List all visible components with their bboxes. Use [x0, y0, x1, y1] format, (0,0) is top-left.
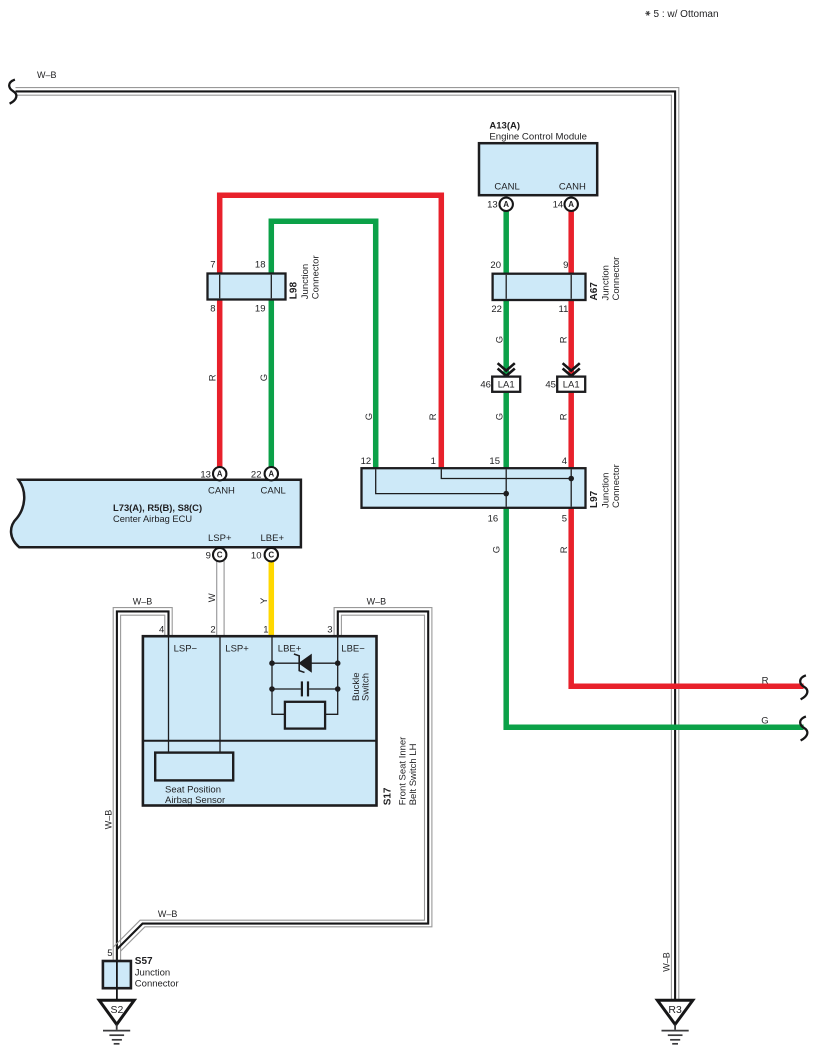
wire through L98 (red circuit, thin) — [219, 275, 221, 299]
svg-text:16: 16 — [488, 514, 499, 525]
svg-text:LBE+: LBE+ — [278, 643, 302, 654]
ground symbol bars under R3 — [662, 1024, 689, 1043]
svg-text:5: 5 — [562, 514, 567, 525]
ECM pin 13 circle A — [500, 198, 513, 211]
svg-text:A: A — [503, 200, 509, 209]
junction connector S57 box — [103, 961, 131, 988]
wire through S17 from pin 2 to seat position airbag sensor — [219, 638, 221, 753]
junction dot right of capacitor — [335, 686, 341, 692]
wire W-B left loop: S17 pin 4 up, left, down to junction connector S57 — [113, 608, 172, 962]
svg-text:5: 5 — [107, 948, 112, 959]
junction connector L97 box — [362, 468, 586, 508]
svg-text:LSP−: LSP− — [174, 643, 198, 654]
svg-text:LA1: LA1 — [563, 380, 580, 391]
svg-text:Junction: Junction — [601, 473, 612, 508]
svg-text:1: 1 — [263, 624, 268, 635]
wire R: ECM pin 14 (CANH) down through A67 and LA1 to L97 pin 4 — [568, 210, 574, 469]
svg-text:10: 10 — [251, 550, 262, 561]
ECU pin 9 circle C — [213, 548, 226, 561]
L97 internal busbar from pin 1 to red circuit — [441, 469, 571, 478]
svg-text:A: A — [568, 200, 574, 209]
svg-text:7: 7 — [210, 259, 215, 270]
svg-text:CANL: CANL — [494, 182, 519, 193]
svg-text:C: C — [268, 551, 274, 560]
junction dot on green circuit in L97 — [503, 491, 509, 497]
svg-text:W: W — [207, 593, 218, 602]
svg-text:Airbag Sensor: Airbag Sensor — [165, 795, 225, 806]
svg-text:22: 22 — [491, 304, 502, 315]
wire through S17 from pin 3 (LBE-) down to buckle switch — [325, 638, 338, 715]
svg-text:R: R — [559, 413, 570, 420]
wire G: ECM pin 13 (CANL) down through A67 and LA1 to L97 pin 15 — [503, 210, 509, 469]
svg-text:R: R — [559, 546, 570, 553]
svg-text:G: G — [364, 413, 375, 420]
shield arrow on green wire — [498, 363, 515, 376]
svg-text:C: C — [217, 551, 223, 560]
svg-text:W–B: W–B — [662, 952, 672, 972]
wire through S57 down to ground S2 — [116, 961, 118, 1001]
continuation hook at left end of W-B wire — [9, 80, 16, 104]
svg-text:5 : w/ Ottoman: 5 : w/ Ottoman — [654, 9, 719, 20]
svg-text:A: A — [217, 470, 223, 479]
shield node LA1 box (red side), pin 45 — [557, 377, 585, 392]
junction connector A67 box — [493, 274, 586, 300]
svg-text:A13(A): A13(A) — [489, 121, 520, 132]
svg-text:Connector: Connector — [611, 464, 622, 508]
svg-text:Seat Position: Seat Position — [165, 784, 221, 795]
svg-text:9: 9 — [563, 260, 568, 271]
svg-text:G: G — [761, 716, 768, 727]
svg-text:CANH: CANH — [559, 182, 586, 193]
svg-text:G: G — [491, 546, 502, 553]
svg-text:W–B: W–B — [104, 810, 114, 830]
svg-text:Engine Control Module: Engine Control Module — [489, 132, 587, 143]
svg-text:45: 45 — [545, 379, 556, 390]
wire R (CANH): Center Airbag ECU pin 13 up, right, down to L97 pin 1 — [220, 195, 442, 469]
seat position airbag sensor box — [155, 753, 233, 781]
zener diode D inside buckle switch — [294, 654, 311, 672]
svg-text:L97: L97 — [589, 490, 600, 508]
svg-text:S17: S17 — [382, 787, 393, 805]
svg-text:R: R — [207, 374, 218, 381]
engine control module A13(A) box — [479, 143, 597, 195]
svg-text:A: A — [268, 470, 274, 479]
svg-text:15: 15 — [489, 456, 500, 467]
wire G (CANL): Center Airbag ECU pin 22 up, right, down to L97 pin 12 — [271, 221, 375, 469]
wire through S17 from pin 1 (LBE+) down to buckle switch — [272, 638, 285, 715]
svg-text:R: R — [762, 676, 769, 687]
wire Y (yellow): ECU pin 10 LBE+ down to S17 pin 1 — [269, 561, 275, 637]
svg-text:13: 13 — [487, 200, 498, 211]
svg-text:46: 46 — [480, 379, 491, 390]
center airbag ECU box L73(A), R5(B), S8(C) with torn left edge — [11, 480, 301, 547]
svg-text:9: 9 — [206, 550, 211, 561]
svg-text:W–B: W–B — [133, 596, 153, 606]
svg-text:LSP+: LSP+ — [208, 533, 232, 544]
svg-text:G: G — [259, 374, 270, 381]
svg-text:14: 14 — [553, 200, 564, 211]
svg-text:Junction: Junction — [601, 265, 612, 300]
svg-text:R3: R3 — [668, 1004, 682, 1016]
svg-text:LA1: LA1 — [498, 380, 515, 391]
svg-text:G: G — [494, 336, 505, 343]
svg-text:W–B: W–B — [37, 70, 57, 80]
continuation hook at right end of wire R — [800, 675, 807, 699]
front seat inner belt switch S17 box — [143, 636, 377, 805]
svg-text:L73(A), R5(B), S8(C): L73(A), R5(B), S8(C) — [113, 502, 202, 513]
junction dot right of diode — [335, 660, 341, 666]
wire G: L97 pin 16 down and right to connector continuation — [506, 507, 803, 727]
capacitor C inside buckle switch — [302, 681, 308, 696]
svg-text:Front Seat Inner: Front Seat Inner — [397, 737, 408, 806]
continuation hook at right end of wire G — [800, 716, 807, 740]
buckle switch contact box — [285, 702, 325, 729]
svg-text:4: 4 — [159, 624, 164, 635]
svg-text:Junction: Junction — [135, 967, 170, 978]
svg-text:A67: A67 — [589, 282, 600, 301]
svg-text:4: 4 — [562, 456, 567, 467]
svg-text:12: 12 — [361, 456, 372, 467]
svg-text:W–B: W–B — [158, 909, 178, 919]
svg-text:LSP+: LSP+ — [225, 643, 249, 654]
wire through L97 (green circuit, thin) — [505, 469, 507, 506]
svg-text:18: 18 — [255, 259, 266, 270]
wire through L97 (red circuit, thin) — [570, 469, 572, 506]
svg-text:CANH: CANH — [208, 485, 235, 496]
svg-text:CANL: CANL — [261, 485, 286, 496]
wire W-B main: left hook, top horizontal run, right vertical drop to ground R3 — [16, 88, 679, 1000]
svg-text:G: G — [494, 413, 505, 420]
svg-text:W–B: W–B — [367, 596, 387, 606]
svg-text:22: 22 — [251, 469, 262, 480]
svg-text:Junction: Junction — [300, 264, 311, 299]
wire through S17 from pin 4 to seat position airbag sensor — [168, 638, 170, 753]
note marker: asterisk for w/ Ottoman — [645, 11, 650, 15]
svg-text:R: R — [428, 413, 439, 420]
shield node LA1 box (green side), pin 46 — [492, 377, 520, 392]
junction dot left of diode — [269, 660, 275, 666]
svg-text:8: 8 — [210, 304, 215, 315]
svg-text:L98: L98 — [289, 282, 300, 300]
svg-text:Center Airbag ECU: Center Airbag ECU — [113, 514, 192, 524]
svg-text:Connector: Connector — [311, 255, 322, 299]
ECU pin 22 circle A — [265, 467, 278, 480]
svg-text:19: 19 — [255, 304, 266, 315]
wire through L98 (green circuit, thin) — [270, 275, 272, 299]
wire through A67 (green circuit, thin) — [505, 275, 507, 299]
svg-text:11: 11 — [559, 304, 569, 315]
wire W (white, outlined): ECU pin 9 LSP+ down to S17 pin 2 — [217, 561, 224, 637]
ECU pin 10 circle C — [265, 548, 278, 561]
ground triangle S2 — [99, 1000, 134, 1024]
wire W-B right loop: S17 pin 3 up, right, down, left and diagonal merge into S57 drop — [113, 608, 432, 952]
svg-text:LBE−: LBE− — [341, 643, 365, 654]
svg-text:S2: S2 — [110, 1004, 123, 1016]
svg-text:S57: S57 — [135, 956, 153, 967]
ECM pin 14 circle A — [565, 198, 578, 211]
svg-text:1: 1 — [431, 456, 436, 467]
svg-text:Connector: Connector — [611, 257, 622, 301]
svg-text:3: 3 — [327, 624, 332, 635]
svg-text:R: R — [559, 336, 570, 343]
shield arrow on red wire — [563, 363, 580, 376]
ground symbol bars under S2 — [103, 1024, 130, 1043]
L97 internal busbar from pin 12 to green circuit — [376, 469, 507, 493]
junction dot left of capacitor — [269, 686, 275, 692]
svg-text:Belt Switch LH: Belt Switch LH — [408, 743, 419, 805]
svg-text:Switch: Switch — [360, 673, 371, 701]
junction connector L98 box — [208, 274, 286, 300]
S17 internal divider line — [143, 740, 377, 742]
ECU pin 13 circle A — [213, 467, 226, 480]
svg-text:13: 13 — [200, 469, 211, 480]
svg-text:LBE+: LBE+ — [261, 533, 285, 544]
ground triangle R3 — [657, 1000, 692, 1024]
wire through A67 (red circuit, thin) — [570, 275, 572, 299]
svg-text:Connector: Connector — [135, 979, 179, 990]
junction dot on red circuit in L97 — [568, 476, 574, 482]
svg-text:2: 2 — [210, 624, 215, 635]
svg-text:Y: Y — [259, 597, 270, 604]
wire: capacitor row inside buckle switch — [272, 688, 338, 690]
wire R: L97 pin 5 down and right to connector continuation — [571, 507, 803, 686]
svg-text:20: 20 — [490, 260, 501, 271]
wire: diode row inside buckle switch — [272, 662, 338, 664]
